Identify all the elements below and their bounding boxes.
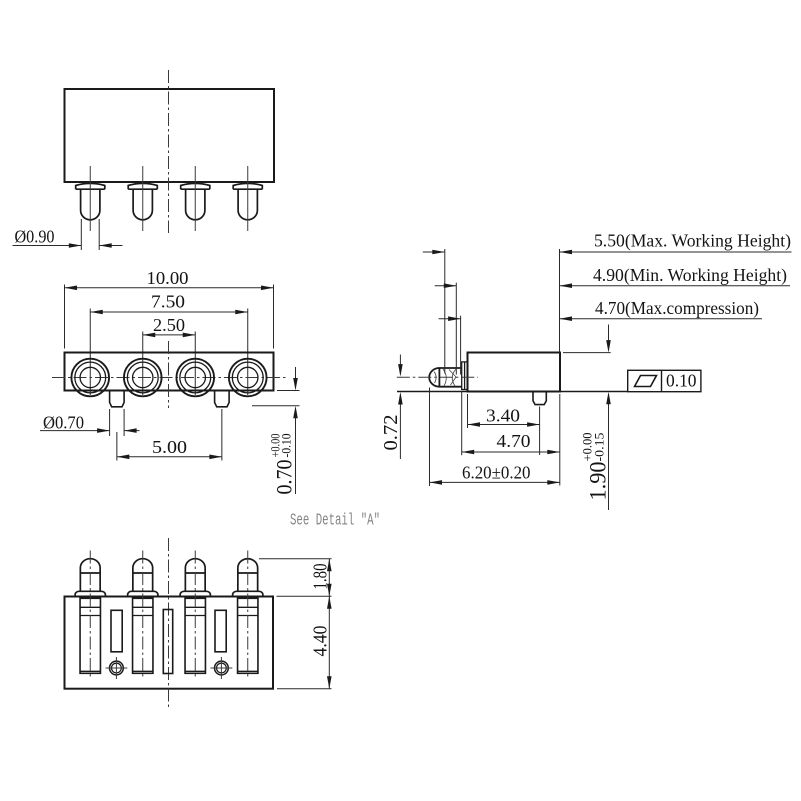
dimension 0.70 tol right: extension lines [252, 391, 300, 406]
pin S3 center line [194, 551, 196, 679]
dimension 7.50 line [90, 310, 248, 315]
pin P4 view1 [233, 183, 262, 219]
svg-text:1.90: 1.90 [586, 462, 611, 501]
housing body view4 [65, 597, 274, 689]
svg-text:10.00: 10.00 [147, 268, 189, 288]
pin S3 view4 [180, 559, 210, 674]
pin P4 axis line [247, 166, 249, 231]
housing body view2 [65, 353, 274, 391]
dimension 3.40 line [468, 422, 540, 427]
flatness datum frame [628, 370, 701, 391]
pin P1 view1 [76, 183, 105, 219]
pin S1 view4 [75, 559, 105, 674]
extension line 4.90 at pin [455, 283, 457, 375]
dimension 4.70 compression [439, 316, 762, 321]
pin barrel circles B3 [176, 359, 214, 397]
dimension 2.50 line [143, 333, 196, 338]
pin P3 view1 [181, 183, 210, 219]
pin P3 axis line [194, 166, 196, 231]
dimension 4.40 line [327, 596, 332, 688]
svg-text:4.90(Min. Working Height): 4.90(Min. Working Height) [593, 265, 787, 286]
svg-text:6.20±0.20: 6.20±0.20 [462, 462, 531, 482]
pin internal spring hatch [434, 369, 456, 386]
svg-text:0.70: 0.70 [272, 460, 297, 495]
dimension D0.90 extension lines [81, 219, 99, 250]
dimension 0.70 tol right: rotated text [269, 434, 297, 495]
pin S1 center line [89, 551, 91, 679]
dimension 1.90 tol rotated text [581, 433, 611, 501]
dimension 6.20 extension line at pin tip [429, 388, 431, 487]
slot hole right [215, 610, 226, 652]
pin barrel circles B4 [229, 359, 267, 397]
dimension 3.40 extension lines [468, 394, 540, 455]
svg-text:2.50: 2.50 [153, 315, 185, 335]
extension line 5.50 at pin [444, 249, 446, 374]
svg-text:5.50(Max. Working Height): 5.50(Max. Working Height) [594, 231, 791, 252]
dimension 1.80/4.40 extension lines [259, 559, 332, 689]
dimension 5.50 working height [423, 250, 792, 255]
svg-text:5.00: 5.00 [152, 437, 187, 457]
svg-text:4.70(Max.compression): 4.70(Max.compression) [595, 298, 759, 319]
vertical center line view1 [168, 70, 170, 233]
pin plunger side view [429, 362, 467, 390]
svg-text:4.40: 4.40 [310, 626, 332, 657]
extension line 4.70 at pin [460, 316, 462, 375]
svg-text:3.40: 3.40 [486, 405, 520, 425]
dimension 2.50 extension lines [143, 332, 196, 396]
svg-text:See Detail "A": See Detail "A" [290, 512, 380, 531]
svg-text:Ø0.90: Ø0.90 [15, 227, 55, 247]
dimension 4.70 bottom extension lines [462, 391, 560, 486]
pin barrel circles B2 [124, 359, 162, 397]
post hole circle right [211, 657, 233, 679]
dimension 1.80 rotated text [310, 564, 332, 590]
pin P2 axis line [142, 166, 144, 231]
svg-text:1.80: 1.80 [310, 564, 332, 590]
dimension 5.00 extension lines [117, 409, 222, 461]
dimension 0.72: arrows [398, 355, 403, 460]
pin S4 view4 [233, 559, 263, 674]
svg-text:7.50: 7.50 [151, 292, 185, 312]
dimension 1.90 tol: top extension and arrow [563, 325, 611, 511]
dimension 6.20 line [430, 480, 560, 485]
horizontal center line view2 [52, 377, 287, 379]
pin S2 center line [142, 551, 144, 679]
dimension 10.00 line [65, 286, 274, 291]
svg-text:-0.15: -0.15 [593, 433, 607, 462]
svg-text:4.70: 4.70 [497, 431, 531, 451]
pin P2 view1 [128, 183, 157, 219]
dimension 4.90 working height [435, 283, 790, 288]
svg-text:Ø0.70: Ø0.70 [43, 413, 84, 433]
dimension 5.00 line [117, 455, 222, 460]
dimension 7.50 extension lines [90, 309, 248, 396]
svg-text:0.10: 0.10 [666, 371, 697, 391]
pin barrel circles B1 [71, 359, 109, 397]
pin S2 view4 [128, 559, 158, 674]
housing body view1 [65, 89, 275, 182]
svg-text:0.72: 0.72 [380, 415, 402, 451]
locating post PP2 view2 [215, 391, 230, 407]
dimension 1.80 line [327, 559, 332, 597]
body right extension line up [559, 249, 561, 353]
post hole circle left [106, 657, 128, 679]
dimension 10.00 extension lines [65, 285, 274, 349]
dimension 4.40 rotated text [310, 626, 332, 657]
dimension 0.72 rotated text [380, 415, 402, 451]
dimension D0.70 lines and arrows [40, 428, 140, 433]
dimension D0.70 extension lines [110, 409, 125, 436]
locating post side view [533, 392, 546, 405]
vertical center line view2 [168, 341, 170, 408]
housing body view3 [468, 353, 561, 392]
dimension 0.70 tol right: arrows [293, 367, 298, 494]
locating post PP1 view2 [110, 391, 125, 407]
slot hole left [111, 610, 122, 652]
svg-text:-0.10: -0.10 [280, 434, 294, 458]
pin axis center line view3 [397, 376, 478, 378]
pin S4 center line [247, 551, 249, 679]
vertical center line view4 [168, 538, 170, 710]
dimension D0.90 lines and arrows [13, 243, 123, 248]
seating plane line [397, 391, 628, 393]
dimension 4.70 bottom line [462, 450, 560, 455]
pin P1 axis line [89, 166, 91, 231]
slot hole center [163, 610, 172, 674]
